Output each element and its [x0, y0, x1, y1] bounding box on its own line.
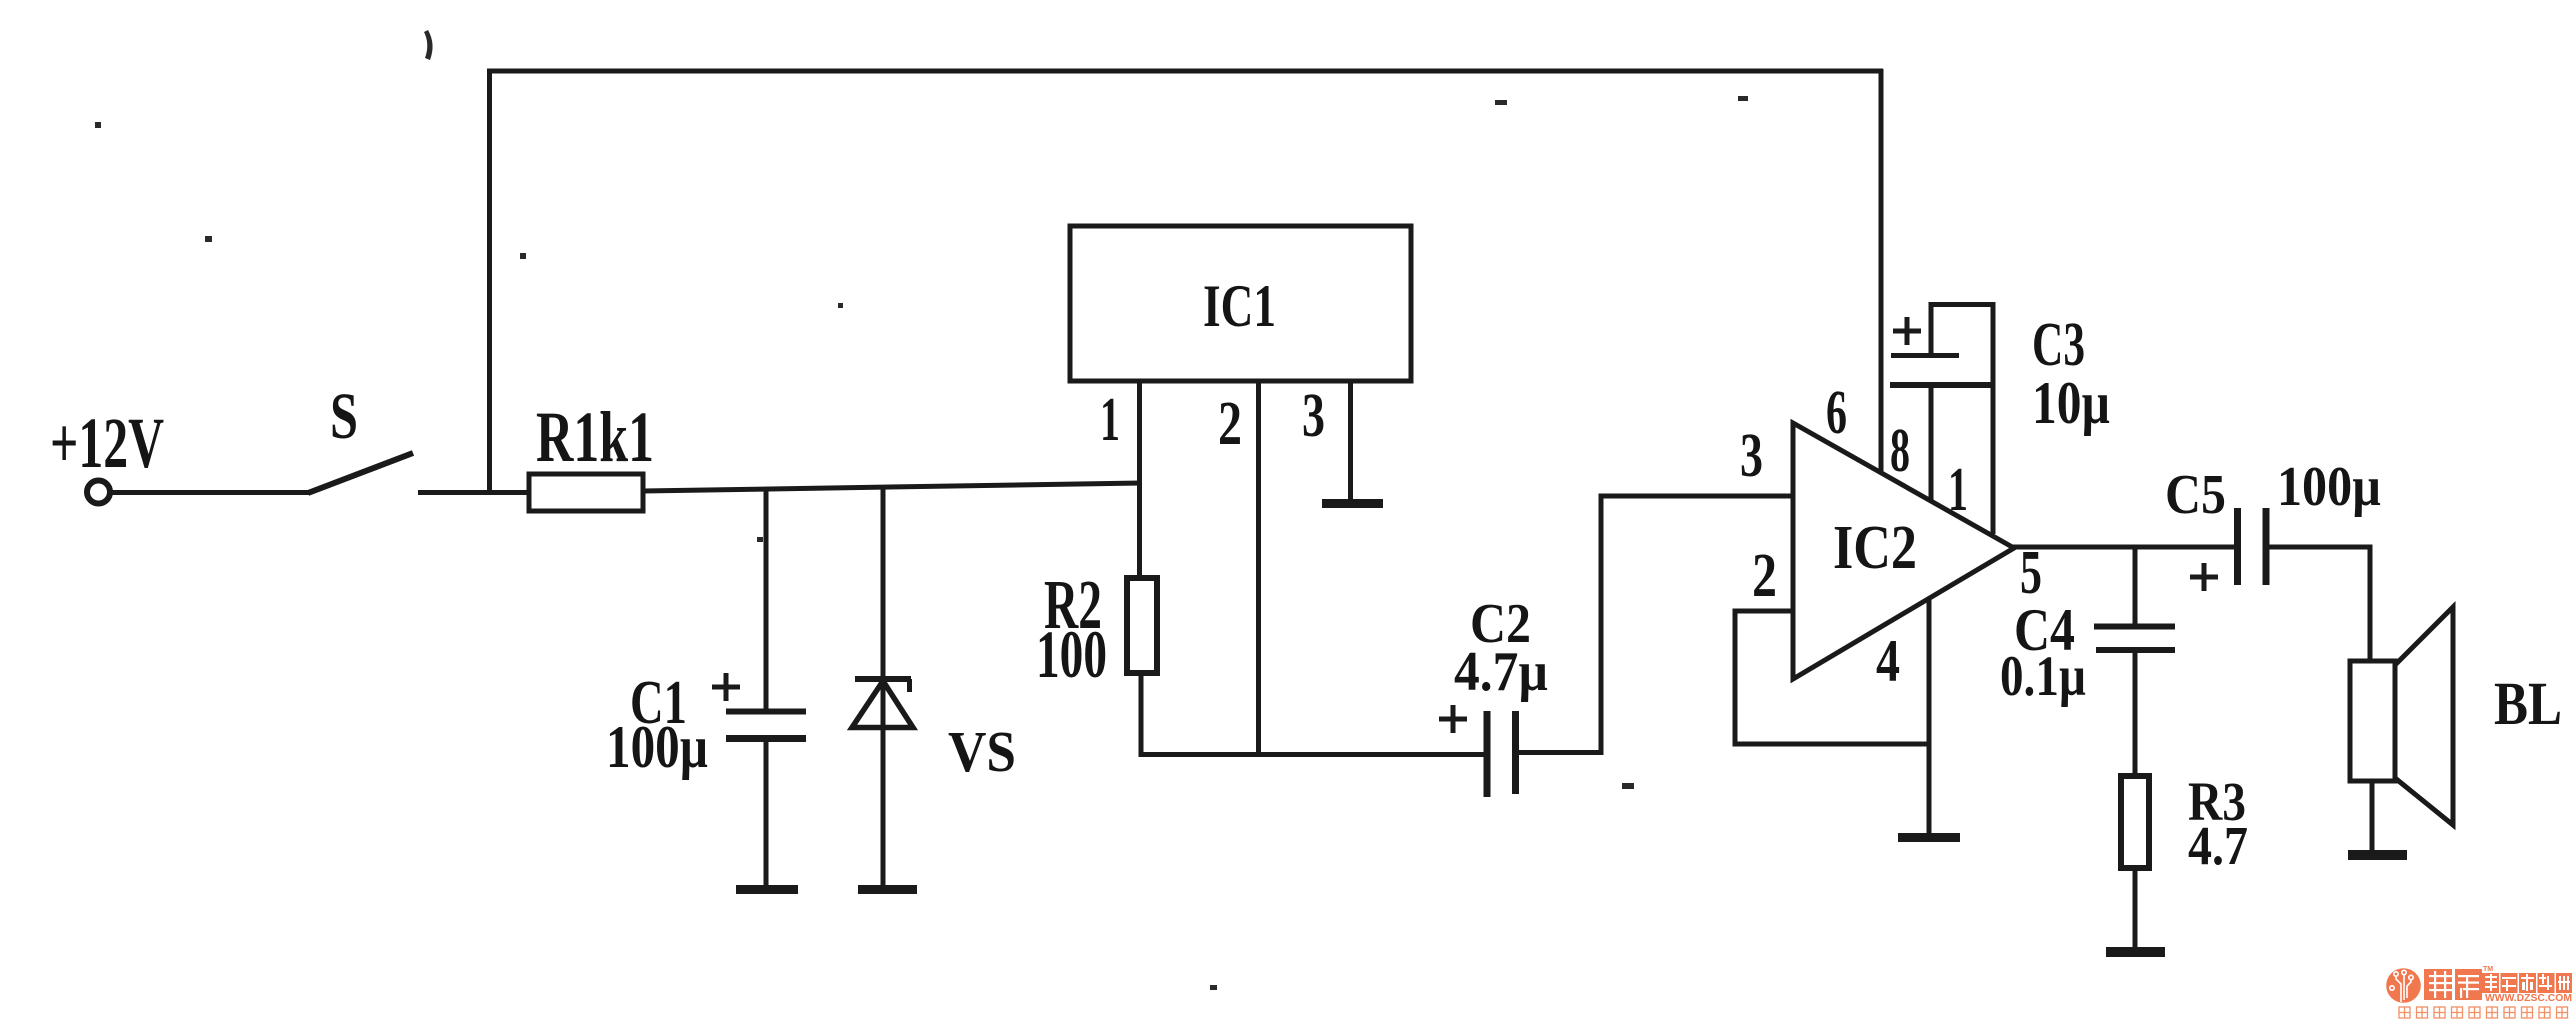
ground C1 [736, 885, 798, 894]
svg-text:IC1: IC1 [1203, 273, 1276, 339]
svg-text:100µ: 100µ [2277, 456, 2381, 518]
svg-text:3: 3 [1302, 382, 1325, 450]
wire R2 to lower rail [1139, 673, 1144, 757]
capacitor C1 lead from rail [764, 487, 769, 712]
svg-text:1: 1 [1948, 456, 1968, 524]
wire terminal to switch [110, 490, 309, 495]
svg-text:BL: BL [2494, 671, 2562, 738]
svg-text:C3: C3 [2032, 311, 2085, 379]
watermark brand 维库 [2424, 966, 2493, 1000]
ground R3 [2106, 947, 2165, 957]
svg-text:VS: VS [948, 719, 1016, 784]
svg-text:3: 3 [1740, 422, 1763, 490]
pin 2 lead of IC1 [1256, 381, 1261, 755]
capacitor C4 [2094, 627, 2175, 651]
capacitor C4 lead [2133, 547, 2138, 628]
svg-text:2: 2 [1218, 390, 1242, 458]
plus sign C3 [1893, 317, 1921, 345]
svg-text:+12V: +12V [50, 403, 164, 483]
zener diode VS lead from rail [881, 486, 886, 887]
svg-text:1: 1 [1100, 386, 1120, 454]
svg-text:S: S [330, 380, 358, 453]
wire switch to R1 [418, 490, 531, 495]
resistor R3 [2121, 776, 2149, 868]
zener diode VS [852, 679, 913, 728]
pin 4 lead of IC2 [1927, 598, 1932, 835]
svg-text:C5: C5 [2165, 464, 2226, 526]
op-amp IC2 [1793, 423, 2014, 679]
capacitor C5 [2238, 508, 2267, 585]
ground BL [2348, 850, 2407, 860]
capacitor C1 [726, 712, 806, 888]
wire left riser from top rail to supply node [487, 69, 492, 494]
plus sign C1 [712, 673, 740, 701]
switch S [308, 453, 413, 493]
wire C2 to riser and to IC2 pin 3 [1515, 496, 1795, 753]
wire C3 loop [1931, 305, 1993, 535]
wire C5 to speaker [2266, 547, 2370, 663]
svg-text:100µ: 100µ [606, 714, 708, 780]
wire output to C5 [2010, 545, 2239, 550]
svg-text:100: 100 [1036, 616, 1107, 692]
svg-text:6: 6 [1826, 379, 1847, 447]
plus sign C2 [1439, 705, 1467, 733]
resistor R2 [1127, 578, 1157, 673]
pin 3 lead of IC1 [1348, 381, 1353, 501]
svg-text:4.7µ: 4.7µ [1454, 641, 1548, 703]
wire speaker to ground [2370, 781, 2375, 852]
wire C4 to R3 [2133, 650, 2138, 776]
svg-text:10µ: 10µ [2032, 370, 2110, 436]
ground IC2 pin 4 [1898, 833, 1960, 842]
ground IC1 pin 3 [1322, 499, 1383, 508]
watermark brand 电子市场网 [2482, 973, 2572, 993]
pin 8 lead of IC2 from top rail [1879, 69, 1884, 474]
watermark slogan 专业电子元器件交易网站 [2399, 1007, 2568, 1018]
svg-text:8: 8 [1890, 417, 1910, 485]
wire R3 to ground [2133, 868, 2138, 949]
svg-text:R1k1: R1k1 [536, 397, 654, 477]
pin 1 lead of IC2 [1929, 385, 1934, 501]
capacitor C2 [1487, 711, 1516, 797]
svg-text:4: 4 [1876, 628, 1900, 694]
pin 2 stub wire of IC2 [1735, 611, 1931, 744]
capacitor C3 [1890, 356, 1993, 386]
wire R1 to IC1 pin 1 node [643, 483, 1141, 491]
svg-text:2: 2 [1752, 542, 1777, 610]
IC IC1 [1070, 226, 1411, 381]
svg-text:TM: TM [2483, 966, 2493, 973]
speaker BL [2350, 607, 2453, 825]
ground VS [858, 885, 917, 894]
terminal +12V [87, 481, 110, 504]
noise speckles [95, 30, 1748, 990]
wire top feedback rail [487, 69, 1883, 74]
svg-text:0.1µ: 0.1µ [2000, 645, 2086, 708]
watermark logo circle [2386, 968, 2421, 1003]
resistor R1 [529, 474, 643, 511]
svg-text:IC2: IC2 [1833, 514, 1917, 582]
wire lower rail [1139, 752, 1490, 757]
plus sign C5 [2190, 563, 2218, 591]
pin 1 lead of IC1 [1137, 381, 1142, 578]
svg-text:WWW.DZSC.COM: WWW.DZSC.COM [2485, 992, 2572, 1004]
svg-text:4.7: 4.7 [2188, 815, 2248, 876]
